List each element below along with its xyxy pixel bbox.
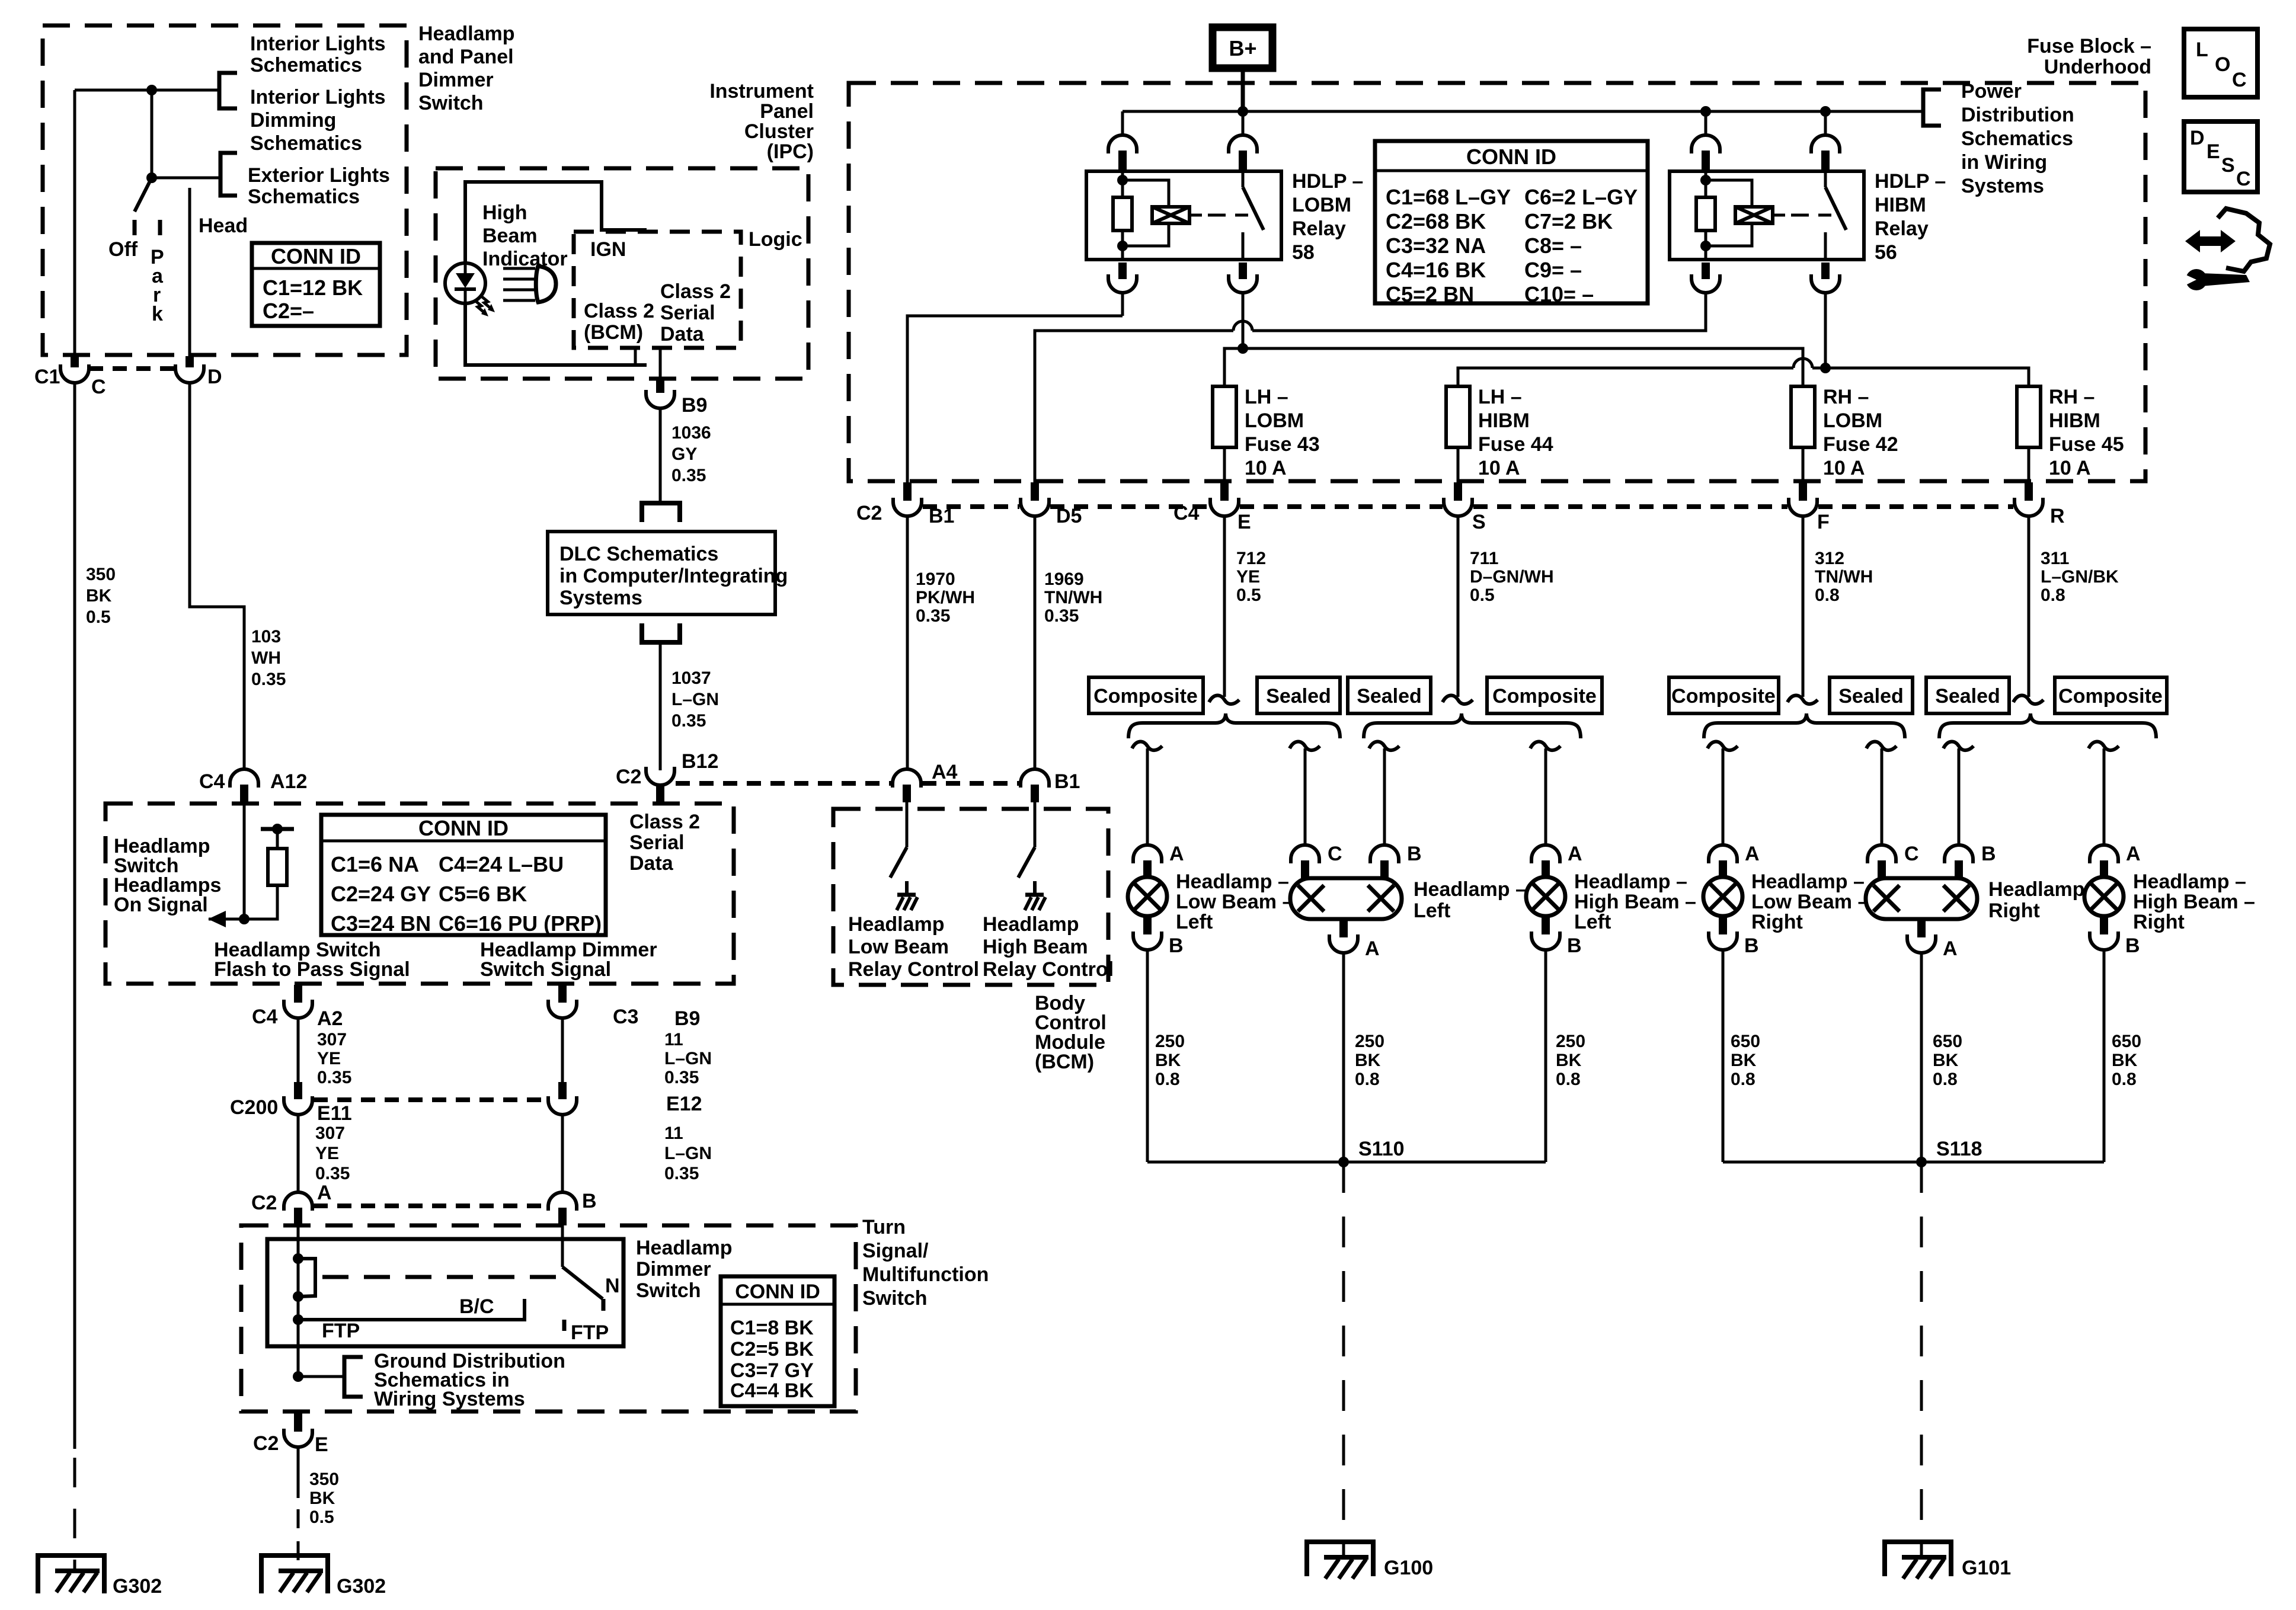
label: Headlamp Switch Headlamps On Signal: [114, 835, 221, 916]
connector lamp terminal C: [1291, 845, 1319, 878]
svg-text:C4=4 BK: C4=4 BK: [730, 1379, 814, 1402]
connector line C200: [314, 1097, 547, 1102]
label: pin B9 (dimmer): [674, 1007, 700, 1030]
wire: sealed left A to S110: [1342, 953, 1345, 1162]
brace: left high beam options: [1364, 713, 1581, 738]
connector fuse block pin B1: [893, 482, 922, 516]
wire: relay58 output to fuse 43 and fuse 42: [1224, 316, 1803, 386]
wire: B+ bus: [1123, 110, 1923, 113]
svg-text:CONN ID: CONN ID: [735, 1281, 820, 1303]
node: bus junction relay56 left: [1700, 106, 1711, 117]
connector C2 pin A4: [893, 769, 921, 802]
turn signal multifunction switch dashed box: [241, 1225, 856, 1411]
svg-text:Composite: Composite: [1093, 685, 1198, 708]
svg-text:Relay Control: Relay Control: [848, 958, 979, 981]
node: dimmer FTP junction: [293, 1314, 303, 1325]
label: C3: [613, 1006, 638, 1028]
wire: B+ to bus: [1241, 68, 1245, 111]
svg-text:S110: S110: [1358, 1138, 1405, 1160]
svg-text:0.35: 0.35: [1044, 606, 1079, 626]
relay HDLP-LOBM 58 bottom-left pin: [1108, 263, 1137, 316]
connector C4 pin A2: [284, 985, 312, 1018]
svg-text:Systems: Systems: [1961, 175, 2044, 197]
node: dimmer pole junction 1: [293, 1253, 303, 1264]
svg-text:On Signal: On Signal: [114, 894, 208, 916]
svg-text:BK: BK: [1556, 1051, 1582, 1070]
fuse block underhood dashed box: [849, 83, 2145, 481]
svg-text:711: 711: [1470, 549, 1498, 568]
label box: Composite (3): [1669, 677, 1779, 713]
wire 307 YE 0.35 (upper): [297, 1018, 300, 1082]
connector C200 pin E12: [548, 1082, 577, 1115]
label: DLC Schematics in Computer/Integrating Systems: [559, 543, 788, 609]
svg-text:Headlamp –: Headlamp –: [1574, 870, 1687, 893]
svg-text:LOBM: LOBM: [1245, 409, 1304, 432]
wire 1969 TN/WH 0.35: [1034, 517, 1037, 770]
svg-text:10 A: 10 A: [2049, 457, 2091, 479]
svg-text:Turn: Turn: [862, 1216, 906, 1238]
label: S110: [1358, 1138, 1405, 1160]
svg-text:B: B: [1744, 934, 1759, 957]
wire 712 YE 0.5: [1223, 517, 1226, 697]
connector C2 pin B12: [646, 767, 674, 802]
label: G100: [1384, 1557, 1433, 1579]
svg-text:A12: A12: [270, 770, 307, 793]
fuse LH-HIBM Fuse 44: [1446, 386, 1470, 447]
svg-text:103: 103: [251, 627, 281, 646]
svg-text:CONN ID: CONN ID: [1466, 145, 1556, 169]
label: C200: [230, 1096, 278, 1119]
svg-text:B: B: [1407, 843, 1422, 865]
svg-text:C2=–: C2=–: [263, 299, 314, 323]
svg-text:G100: G100: [1384, 1557, 1433, 1579]
svg-text:Composite: Composite: [2058, 685, 2163, 708]
wire 11 L-GN 0.35 (upper): [561, 1018, 564, 1082]
svg-text:10 A: 10 A: [1245, 457, 1287, 479]
bracket: to Interior Lights Schematics: [219, 73, 237, 108]
svg-text:A2: A2: [317, 1007, 343, 1030]
label box: Composite (4): [2055, 677, 2167, 713]
label: pin E11: [317, 1102, 352, 1125]
label: Off: [108, 238, 138, 261]
svg-text:B: B: [1567, 934, 1582, 957]
label: pin B (turn signal): [582, 1190, 597, 1212]
wire: FTP contact row: [298, 1299, 525, 1320]
wire: to exterior lights bracket: [152, 177, 219, 180]
connector line C1: [89, 366, 175, 371]
svg-text:C200: C200: [230, 1096, 278, 1119]
svg-text:BK: BK: [1933, 1051, 1959, 1070]
switch: dimmer common bar and linkage: [298, 1259, 557, 1297]
svg-text:0.5: 0.5: [309, 1507, 334, 1527]
node: splice S110: [1338, 1157, 1349, 1167]
svg-text:C1: C1: [34, 366, 60, 388]
svg-text:HIBM: HIBM: [1875, 194, 1926, 216]
svg-text:C3=7 GY: C3=7 GY: [730, 1359, 814, 1382]
svg-text:HDLP –: HDLP –: [1292, 170, 1363, 193]
lamp: headlamp high beam right: [2084, 877, 2124, 916]
label: 250 BK 0.8 (2): [1355, 1032, 1384, 1089]
connector C200 pin E11: [284, 1082, 312, 1115]
svg-text:(BCM): (BCM): [584, 321, 643, 344]
svg-text:A: A: [1169, 843, 1184, 865]
svg-text:C2=24 GY: C2=24 GY: [331, 882, 431, 906]
svg-text:0.5: 0.5: [1470, 585, 1495, 605]
svg-text:0.5: 0.5: [1236, 585, 1261, 605]
svg-text:in Wiring: in Wiring: [1961, 151, 2047, 174]
icon: schematic page outline: [2218, 209, 2270, 271]
svg-text:1036: 1036: [671, 423, 711, 443]
connector lamp terminal B: [1531, 916, 1560, 950]
label: Headlamp Dimmer Switch Signal: [480, 939, 657, 981]
svg-text:Fuse 45: Fuse 45: [2049, 433, 2124, 456]
label: terminal A: [1745, 843, 1760, 865]
connector lamp terminal A: [1133, 845, 1162, 878]
svg-text:LH –: LH –: [1478, 386, 1522, 408]
label: Fuse Block - Underhood: [2027, 35, 2151, 78]
svg-text:Headlamp: Headlamp: [636, 1237, 733, 1259]
wire: S118 to G101: [1920, 1162, 1923, 1558]
svg-text:0.35: 0.35: [251, 670, 286, 689]
relay HDLP-LOBM 58 top-right pin: [1229, 111, 1257, 171]
bracket: to Interior Lights Dimming Schematics: [220, 153, 237, 196]
CONN ID table (turn signal switch): [721, 1276, 834, 1406]
connector lamp terminal A: [1531, 845, 1560, 878]
svg-text:C3: C3: [613, 1006, 638, 1028]
svg-text:GY: GY: [671, 444, 697, 464]
svg-text:Instrument: Instrument: [709, 80, 814, 103]
svg-text:Class 2: Class 2: [629, 811, 700, 833]
svg-text:0.35: 0.35: [916, 606, 950, 626]
label: terminal A (sealed left): [1365, 937, 1380, 960]
svg-text:Low Beam –: Low Beam –: [1751, 891, 1869, 913]
connector lamp terminal B: [1133, 916, 1162, 950]
relay HDLP-LOBM 58 switch: [1243, 171, 1264, 260]
connector C3 pin B9 (dimmer): [548, 985, 577, 1018]
svg-text:BK: BK: [309, 1489, 335, 1508]
hook: 712 wire end: [1209, 696, 1239, 705]
hook: 312 wire end: [1787, 696, 1818, 705]
svg-text:350: 350: [309, 1470, 339, 1489]
svg-text:307: 307: [317, 1030, 347, 1049]
svg-text:S: S: [1472, 511, 1486, 533]
label: 1969 TN/WH 0.35: [1044, 569, 1102, 626]
label: Park (vertical): [151, 246, 164, 325]
svg-text:250: 250: [1155, 1032, 1185, 1051]
svg-text:650: 650: [2112, 1032, 2141, 1051]
svg-text:Wiring Systems: Wiring Systems: [374, 1388, 525, 1410]
svg-text:Off: Off: [108, 238, 138, 261]
wire: vertical to park junction: [151, 90, 154, 178]
wire: high beam left to S110: [1544, 950, 1547, 1162]
svg-text:G101: G101: [1962, 1557, 2011, 1579]
label: C2 (B12): [616, 766, 641, 788]
label: pin C: [91, 376, 106, 398]
label: terminal C: [1328, 843, 1342, 865]
svg-text:FTP: FTP: [322, 1320, 360, 1342]
CONN ID table (headlamp switch C1): [252, 243, 380, 326]
wire: fuse 43 drop: [1224, 386, 2029, 484]
svg-text:Low Beam: Low Beam: [848, 936, 949, 958]
label: LH-LOBM Fuse 43 10 A: [1245, 386, 1320, 479]
svg-text:0.35: 0.35: [317, 1068, 351, 1087]
svg-text:C: C: [2232, 69, 2247, 91]
svg-text:Sealed: Sealed: [1935, 685, 2000, 708]
relay HDLP-HIBM 56 switch: [1825, 171, 1846, 260]
bracket: into DLC schematics: [642, 503, 680, 522]
node: relay58 output junction: [1237, 343, 1248, 354]
svg-text:YE: YE: [317, 1049, 341, 1068]
svg-text:0.8: 0.8: [1556, 1070, 1581, 1089]
svg-text:Headlamp –: Headlamp –: [1176, 870, 1289, 893]
svg-text:Switch Signal: Switch Signal: [480, 958, 611, 981]
label: 11 L-GN 0.35 (lower): [664, 1124, 712, 1183]
label: pin D: [207, 366, 222, 388]
connector fuse block pin S: [1444, 482, 1472, 516]
label: terminal A: [2126, 843, 2141, 865]
label: pin A (turn signal): [317, 1182, 332, 1204]
svg-text:Right: Right: [1751, 911, 1803, 933]
label: pin S: [1472, 511, 1486, 533]
connector C2 pin B1 (bcm): [1021, 769, 1049, 802]
wire: S110 to G100: [1342, 1162, 1345, 1558]
svg-text:(IPC): (IPC): [767, 140, 814, 163]
svg-text:High Beam –: High Beam –: [2133, 891, 2255, 913]
label: S118: [1936, 1138, 1982, 1160]
lamp: headlamp right sealed: [1866, 878, 1977, 919]
label: pin E: [1237, 511, 1251, 533]
LED high beam indicator: [445, 263, 495, 316]
hop: D5 line over relay58 output: [1233, 321, 1252, 331]
svg-text:0.35: 0.35: [315, 1164, 350, 1183]
svg-text:Logic: Logic: [749, 228, 802, 251]
ground G101: [1885, 1542, 1951, 1579]
svg-text:10 A: 10 A: [1823, 457, 1865, 479]
wire: drop to high beam right: [2089, 742, 2119, 845]
connector lamp terminal A: [1709, 845, 1737, 878]
wire 11 L-GN 0.35 (lower): [561, 1115, 564, 1193]
svg-text:HDLP –: HDLP –: [1875, 170, 1946, 193]
svg-text:TN/WH: TN/WH: [1815, 567, 1873, 587]
svg-text:Headlamp: Headlamp: [983, 913, 1079, 936]
wire 311 L-GN/BK 0.8: [2028, 517, 2030, 697]
svg-text:B/C: B/C: [459, 1295, 494, 1318]
wire 307 YE 0.35 (lower): [297, 1115, 300, 1193]
switch: headlamp low beam relay control: [890, 802, 917, 910]
svg-text:BK: BK: [1355, 1051, 1381, 1070]
svg-text:N: N: [605, 1275, 620, 1297]
connector lamp terminal B: [1709, 916, 1737, 950]
label box: Sealed (2): [1348, 677, 1431, 713]
label: pin A4: [932, 761, 958, 783]
svg-text:Switch: Switch: [636, 1279, 701, 1302]
wire: drop to high beam left: [1530, 742, 1560, 845]
label: Logic: [749, 228, 802, 251]
svg-text:A: A: [317, 1182, 332, 1204]
label: 307 YE 0.35 (upper): [317, 1030, 351, 1087]
svg-text:CONN ID: CONN ID: [271, 244, 361, 268]
label: Headlamp - Low Beam - Right: [1751, 870, 1869, 933]
connector lamp terminal B: [2090, 916, 2118, 950]
connector line C2 (turn signal): [314, 1204, 548, 1208]
wire: relay56 output to fuse 44 and fuse 45: [1458, 293, 2029, 386]
node: junction interior lights feed: [146, 85, 157, 95]
relay HDLP-HIBM 56 coil and resistor: [1696, 171, 1831, 260]
connector fuse block pin D5: [1021, 482, 1049, 516]
label: terminal B: [2125, 934, 2140, 957]
svg-text:G302: G302: [113, 1575, 162, 1598]
wire: A pole into dimmer: [297, 1225, 300, 1377]
svg-text:B9: B9: [682, 394, 707, 417]
svg-text:C4: C4: [252, 1006, 278, 1028]
svg-text:Composite: Composite: [1671, 685, 1776, 708]
svg-text:High Beam: High Beam: [983, 936, 1088, 958]
svg-text:650: 650: [1933, 1032, 1962, 1051]
svg-text:Distribution: Distribution: [1961, 104, 2074, 126]
label: 307 YE 0.35 (lower): [315, 1124, 350, 1183]
brace: right high beam options: [1939, 713, 2156, 738]
resistor: headlamps on signal pull-up: [209, 824, 294, 919]
icon: wrench: [2182, 269, 2250, 290]
svg-text:Class 2: Class 2: [584, 300, 654, 322]
relay HDLP-LOBM 58 top-left pin: [1108, 111, 1137, 171]
svg-text:C: C: [91, 376, 106, 398]
svg-text:Schematics: Schematics: [250, 132, 362, 155]
svg-text:YE: YE: [1236, 567, 1260, 587]
label: 712 YE 0.5: [1236, 549, 1266, 605]
wire: drop to sealed right B: [1943, 742, 1974, 845]
label: 103 WH 0.35: [251, 627, 286, 689]
wire: drop to sealed left B: [1369, 742, 1399, 845]
svg-text:C4=16 BK: C4=16 BK: [1386, 258, 1486, 282]
wire: relay56 coil to D5 connector: [1035, 316, 1706, 484]
label: Class 2 Serial Data (logic): [660, 280, 731, 345]
svg-text:E11: E11: [317, 1102, 352, 1125]
label: pin B1 (bcm): [1054, 770, 1080, 793]
svg-text:0.35: 0.35: [664, 1164, 699, 1183]
label: terminal B: [1744, 934, 1759, 957]
label: 312 TN/WH 0.8: [1815, 549, 1873, 605]
connector fuse block pin F: [1789, 482, 1817, 516]
svg-text:1969: 1969: [1044, 569, 1084, 589]
wire: drop to sealed left C: [1290, 742, 1320, 845]
label box: Sealed (4): [1926, 677, 2009, 713]
label: pin A12: [270, 770, 307, 793]
svg-text:L–GN: L–GN: [671, 690, 719, 709]
label: terminal A (sealed right): [1943, 937, 1958, 960]
connector lamp terminal B: [1945, 845, 1973, 878]
svg-text:Schematics: Schematics: [1961, 127, 2073, 150]
label: Headlamp - Left: [1414, 878, 1527, 922]
hop: fuse44 line over fuse42 drop: [1793, 359, 1812, 368]
svg-text:LOBM: LOBM: [1823, 409, 1882, 432]
B+ power feed box: [1213, 27, 1272, 68]
relay HDLP-HIBM 56 bottom-left pin: [1691, 263, 1720, 316]
label: C4 (A12): [199, 770, 225, 793]
label: 250 BK 0.8 (1): [1155, 1032, 1185, 1089]
svg-text:312: 312: [1815, 549, 1844, 568]
label: Headlamp - High Beam - Left: [1574, 870, 1696, 933]
label: terminal C: [1904, 843, 1919, 865]
label: pin R: [2050, 505, 2065, 527]
node: dimmer pole junction 2: [293, 1291, 303, 1302]
svg-text:250: 250: [1556, 1032, 1585, 1051]
label: terminal B: [1407, 843, 1422, 865]
svg-text:650: 650: [1731, 1032, 1760, 1051]
label: Instrument Panel Cluster (IPC): [709, 80, 814, 163]
label box: Sealed (3): [1830, 677, 1913, 713]
wire: low beam right to S118: [1722, 950, 1725, 1162]
svg-text:S: S: [2221, 154, 2235, 177]
label: Headlamp Dimmer Switch: [636, 1237, 733, 1302]
label: G101: [1962, 1557, 2011, 1579]
label: G302 (dimmer): [337, 1575, 386, 1598]
connector line C2/serial data row: [676, 781, 1019, 786]
svg-text:Class 2: Class 2: [660, 280, 731, 303]
svg-text:LOBM: LOBM: [1292, 194, 1351, 216]
svg-text:DLC Schematics: DLC Schematics: [559, 543, 718, 565]
label: RH-LOBM Fuse 42 10 A: [1823, 386, 1898, 479]
svg-text:A: A: [1943, 937, 1958, 960]
svg-text:(BCM): (BCM): [1035, 1051, 1094, 1073]
svg-text:0.35: 0.35: [671, 711, 706, 731]
label: 650 BK 0.8 (3): [2112, 1032, 2141, 1089]
lamp: headlamp left sealed: [1290, 878, 1402, 919]
svg-text:B9: B9: [674, 1007, 700, 1030]
label: terminal B: [1981, 843, 1996, 865]
label: pin B12: [682, 750, 718, 773]
headlamp dimmer switch solid box: [267, 1239, 623, 1346]
label: 1970 PK/WH 0.35: [916, 569, 975, 626]
wire: low beam left to S110: [1146, 950, 1149, 1162]
svg-text:Switch: Switch: [862, 1287, 928, 1310]
svg-text:Headlamp: Headlamp: [848, 913, 945, 936]
high beam icon: [503, 266, 556, 302]
svg-text:C5=6 BK: C5=6 BK: [439, 882, 527, 906]
svg-text:0.8: 0.8: [1731, 1070, 1755, 1089]
label: Class 2 Serial Data (switch box): [629, 811, 700, 875]
svg-text:Headlamp –: Headlamp –: [2133, 870, 2246, 893]
svg-text:TN/WH: TN/WH: [1044, 588, 1102, 607]
label: C4 (A2): [252, 1006, 278, 1028]
svg-text:BK: BK: [1155, 1051, 1181, 1070]
headlamp switch dashed box: [105, 804, 734, 984]
label: Body Control Module (BCM): [1035, 992, 1107, 1073]
svg-text:Schematics: Schematics: [248, 185, 360, 208]
bracket: ground distribution: [293, 1357, 363, 1397]
wire: drop to sealed right C: [1866, 742, 1897, 845]
svg-text:C7=2 BK: C7=2 BK: [1524, 209, 1613, 233]
wire: drop to low beam left: [1132, 742, 1162, 845]
wire 350 BK 0.5 to G302: [297, 1448, 300, 1571]
svg-text:Fuse 43: Fuse 43: [1245, 433, 1320, 456]
svg-text:F: F: [1817, 511, 1830, 533]
wire: left 350 BK to G302: [73, 382, 76, 1571]
svg-text:RH –: RH –: [1823, 386, 1869, 408]
svg-text:C2=5 BK: C2=5 BK: [730, 1338, 814, 1361]
label: pin B9: [682, 394, 707, 417]
svg-text:712: 712: [1236, 549, 1266, 568]
svg-text:Left: Left: [1414, 900, 1450, 922]
svg-text:HIBM: HIBM: [2049, 409, 2100, 432]
svg-text:LH –: LH –: [1245, 386, 1288, 408]
svg-text:B1: B1: [1054, 770, 1080, 793]
svg-text:Data: Data: [660, 323, 705, 345]
wire 1037 L-GN 0.35: [659, 641, 662, 770]
wire: S118 ground bus: [1723, 1161, 2104, 1164]
svg-text:Schematics: Schematics: [250, 54, 362, 76]
wire: A12 into switch: [243, 802, 246, 919]
